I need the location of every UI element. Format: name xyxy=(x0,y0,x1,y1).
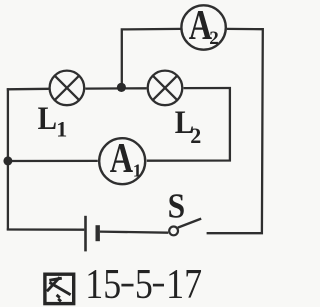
lamp L2 xyxy=(148,71,183,106)
ammeter A2 xyxy=(181,5,225,49)
caption: hanzi tu (drawn) xyxy=(45,274,74,303)
node: junction dot at left xyxy=(3,156,12,165)
wire: junction up and across to A2 xyxy=(122,29,181,89)
ammeter A1 xyxy=(99,138,145,184)
label L2 xyxy=(175,103,202,148)
battery cell: long positive plate xyxy=(84,216,87,252)
label L1 xyxy=(38,99,68,141)
node: junction dot at lamp row xyxy=(117,83,126,92)
wire: L1 to L2 through junction xyxy=(85,87,146,90)
battery cell: short negative plate xyxy=(95,225,99,241)
lamp L1 xyxy=(50,71,85,106)
svg-text:2: 2 xyxy=(190,123,201,148)
wire: left vertical xyxy=(7,88,9,230)
label A2 xyxy=(189,3,219,49)
switch S: lever xyxy=(178,219,201,228)
svg-text:1: 1 xyxy=(133,160,142,180)
wire: battery to switch xyxy=(100,232,168,233)
svg-text:15517: 15517 xyxy=(85,261,202,307)
svg-text:L: L xyxy=(38,99,57,136)
label A1 xyxy=(110,136,142,182)
svg-text:A: A xyxy=(110,136,133,182)
switch S: pivot circle xyxy=(169,227,178,236)
wire: L2 to right mid corner xyxy=(184,87,231,89)
wire: right mid vertical down to A1 row xyxy=(147,87,230,161)
svg-text:S: S xyxy=(168,187,186,226)
wire: A2 right, down right edge, to switch xyxy=(207,29,263,233)
wire: A1 left to left node xyxy=(7,160,98,162)
wire: bottom left to battery xyxy=(7,228,85,230)
wire: lamp row left to L1 xyxy=(7,88,49,91)
svg-text:2: 2 xyxy=(209,28,219,49)
svg-text:1: 1 xyxy=(56,116,67,141)
